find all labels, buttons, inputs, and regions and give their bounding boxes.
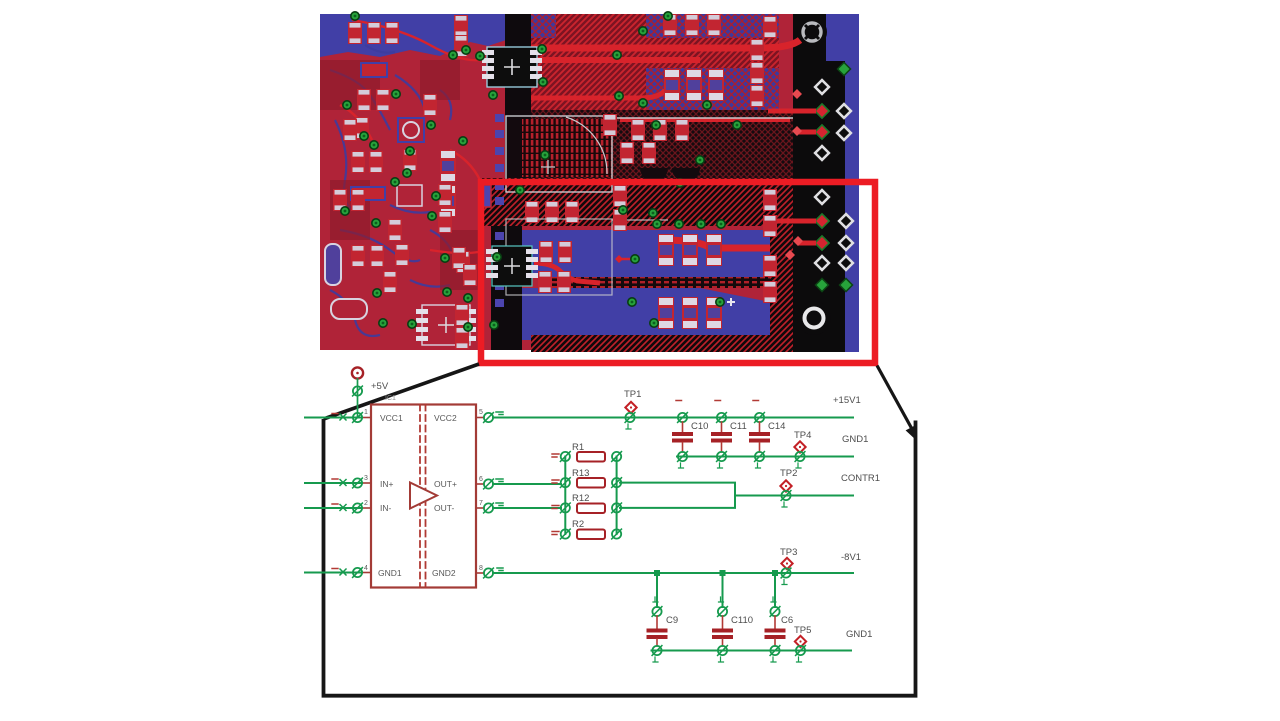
resistor R13 xyxy=(552,468,621,488)
svg-text:8: 8 xyxy=(479,565,483,572)
top-left blue band xyxy=(320,14,506,57)
bottom-right round connector xyxy=(797,301,831,335)
svg-text:IN+: IN+ xyxy=(380,479,394,489)
svg-text:C14: C14 xyxy=(768,421,785,432)
wire +5V vertical xyxy=(357,379,359,418)
+5V power symbol xyxy=(352,367,363,378)
svg-text:1: 1 xyxy=(364,409,368,416)
thick red traces upper middle xyxy=(531,40,800,248)
svg-text:C9: C9 xyxy=(666,615,678,626)
svg-text:TP3: TP3 xyxy=(780,547,797,558)
IC package top xyxy=(482,47,542,87)
capacitor C110 xyxy=(712,573,753,662)
top-right mounting hole xyxy=(797,17,827,47)
svg-text:5: 5 xyxy=(479,409,483,416)
capacitor C10 xyxy=(672,413,708,468)
capacitor C9 xyxy=(647,573,679,662)
board base xyxy=(320,14,859,350)
svg-text:OUT+: OUT+ xyxy=(434,479,457,489)
test point TP5 xyxy=(794,625,811,662)
big blue region upper xyxy=(522,230,770,277)
svg-text:IC1: IC1 xyxy=(385,395,396,402)
svg-text:4: 4 xyxy=(364,565,368,572)
left region traces (dark blue meanders) xyxy=(330,45,455,336)
darker red patches xyxy=(320,60,478,290)
black dash band xyxy=(545,277,793,288)
op-amp triangle xyxy=(410,483,437,509)
wire VCC1 left xyxy=(305,417,362,419)
resistor R2 xyxy=(552,519,621,539)
svg-text:VCC1: VCC1 xyxy=(380,413,403,423)
IC package bottom xyxy=(486,246,538,286)
vias left xyxy=(341,12,547,331)
test point TP3 xyxy=(780,547,797,585)
wire OUT+ to resistors xyxy=(493,483,561,485)
transformer 1 winding xyxy=(522,119,612,177)
wire OUT- to resistors xyxy=(493,507,561,509)
vias middle xyxy=(516,12,741,327)
wires into IC left xyxy=(305,418,362,573)
tiny net stubs xyxy=(676,400,759,402)
silkscreen rect 2 xyxy=(506,219,612,295)
wire GND1 upper xyxy=(677,456,853,458)
svg-text:TP4: TP4 xyxy=(794,430,811,441)
resistor right bus xyxy=(616,457,618,535)
svg-text:C110: C110 xyxy=(731,615,753,626)
wire CONTR1 xyxy=(735,495,853,497)
capacitor C14 xyxy=(749,413,785,468)
svg-text:GND1: GND1 xyxy=(378,568,402,578)
isolation amplifier IC1 xyxy=(362,405,484,588)
svg-text:-8V1: -8V1 xyxy=(841,552,861,563)
test point TP4 xyxy=(794,430,811,468)
svg-text:+15V1: +15V1 xyxy=(833,395,861,406)
svg-text:6: 6 xyxy=(479,476,483,483)
svg-text:GND2: GND2 xyxy=(432,568,456,578)
lower hatched dark band inside callout top xyxy=(482,178,793,226)
svg-text:TP2: TP2 xyxy=(780,468,797,479)
wire -8V1 xyxy=(493,572,853,574)
silkscreen rectangle xyxy=(506,116,612,192)
upper hatched blue region xyxy=(531,14,779,110)
bottom hatched band xyxy=(531,335,807,352)
left area components xyxy=(325,15,572,349)
red traces bright left xyxy=(340,20,480,253)
connector diamond pads xyxy=(815,62,853,291)
svg-text:C6: C6 xyxy=(781,615,793,626)
wire GND1 lower xyxy=(652,650,852,652)
svg-text:C11: C11 xyxy=(730,421,747,432)
wire IN- left xyxy=(305,507,362,509)
cluster under transformer 1 xyxy=(525,201,579,223)
pin stub upper xyxy=(353,386,363,396)
junction X marks xyxy=(340,414,346,575)
pin stubs red xyxy=(362,418,484,574)
callout arrow right xyxy=(877,366,912,430)
resistor left bus xyxy=(564,457,566,535)
wire GND1 left xyxy=(305,572,362,574)
svg-text:3: 3 xyxy=(364,475,368,482)
middle component clusters xyxy=(603,14,777,329)
svg-text:GND1: GND1 xyxy=(846,629,872,640)
black semicircle cutouts xyxy=(640,168,668,182)
pin circles IC right xyxy=(484,413,494,423)
blue pad column xyxy=(495,114,504,307)
schematic frame xyxy=(324,419,916,696)
svg-text:IN-: IN- xyxy=(380,503,392,513)
test point TP1 xyxy=(624,389,641,429)
capacitor C11 xyxy=(711,413,747,468)
test point TP2 xyxy=(780,468,797,507)
svg-text:OUT-: OUT- xyxy=(434,503,454,513)
resistor R1 xyxy=(552,442,621,462)
right connector zone xyxy=(793,14,850,352)
tiny red net stubs left xyxy=(332,414,338,569)
red callout rectangle on PCB xyxy=(481,182,875,363)
isolation barrier dashed lines xyxy=(420,405,426,588)
svg-text:TP5: TP5 xyxy=(794,625,811,636)
svg-text:R2: R2 xyxy=(572,519,584,530)
svg-text:2: 2 xyxy=(364,500,368,507)
wire +15V1 xyxy=(493,417,853,419)
pin circles IC left xyxy=(353,413,363,423)
svg-text:TP1: TP1 xyxy=(624,389,641,400)
svg-text:R12: R12 xyxy=(572,493,589,504)
red traces entering connector xyxy=(768,111,816,243)
mid black band xyxy=(505,110,793,178)
right hatch column xyxy=(770,178,793,348)
svg-text:VCC2: VCC2 xyxy=(434,413,457,423)
svg-text:7: 7 xyxy=(479,500,483,507)
resistor R12 xyxy=(552,493,621,513)
svg-text:CONTR1: CONTR1 xyxy=(841,473,880,484)
junction dots on -8V1 wire xyxy=(654,570,778,576)
wire IN+ left xyxy=(305,482,362,484)
thick trace from IC to dash band xyxy=(534,263,600,283)
svg-text:C10: C10 xyxy=(691,421,708,432)
capacitor C6 xyxy=(765,573,794,662)
small cross pads xyxy=(727,298,735,306)
contr1 loop rectangle wire xyxy=(620,483,735,508)
big blue region lower xyxy=(522,288,770,340)
svg-text:+5V: +5V xyxy=(371,381,389,392)
middle black strip xyxy=(505,14,531,186)
svg-text:GND1: GND1 xyxy=(842,434,868,445)
callout connector line left xyxy=(324,364,480,419)
